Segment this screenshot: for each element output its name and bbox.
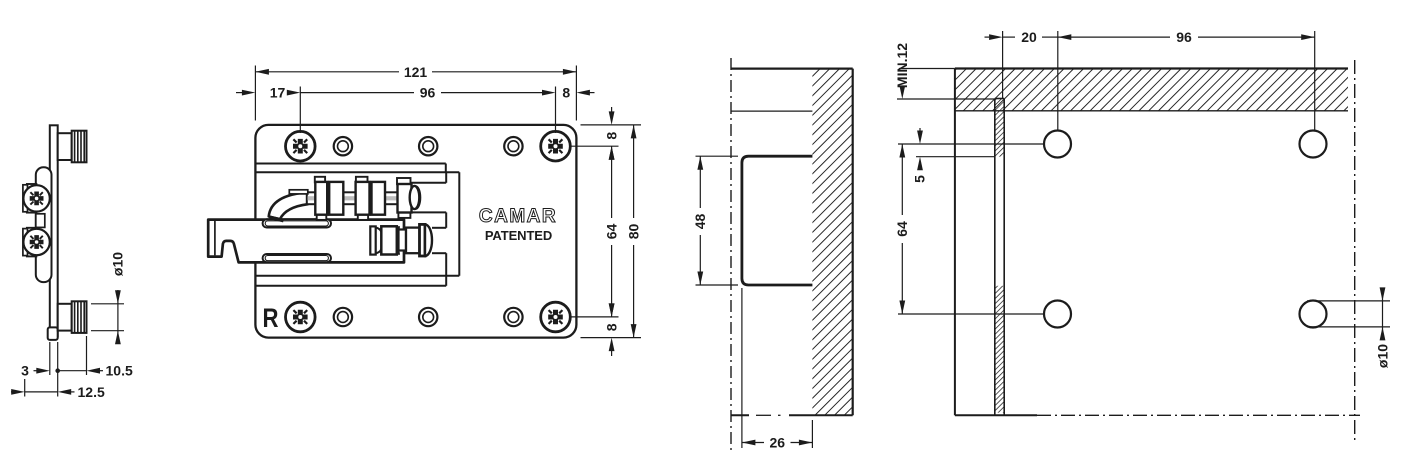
cam housing bar — [36, 167, 52, 282]
extension line screw bottom right side — [571, 316, 619, 318]
side panel groove strip — [995, 99, 1004, 157]
top row screw left — [286, 131, 316, 161]
top dowel threaded end — [72, 131, 87, 163]
dim 8 vertical top: arrows outside — [611, 107, 613, 112]
panel right edge — [852, 69, 854, 416]
dim 80 vertical — [633, 125, 635, 218]
ext line 26 left — [741, 288, 743, 448]
svg-text:ø10: ø10 — [1374, 344, 1390, 368]
hole bottom-left — [1044, 301, 1071, 328]
svg-text:48: 48 — [692, 214, 708, 230]
collar B5 — [398, 184, 412, 213]
dim 10.5 — [58, 370, 87, 372]
ext line plate right — [57, 342, 59, 397]
dim 64 vertical — [611, 146, 613, 218]
svg-text:26: 26 — [770, 434, 786, 450]
bottom centerline dash-dot — [756, 414, 771, 416]
svg-text:8: 8 — [603, 132, 619, 140]
connector between cams — [36, 214, 45, 228]
dia10 dimension — [117, 290, 119, 344]
hole top-left — [1044, 131, 1071, 158]
lower cylinder — [406, 228, 420, 254]
screw head cap — [410, 186, 420, 209]
bottom row hole 1 — [334, 308, 352, 326]
dim 20 ext line right / 96 left — [1057, 31, 1059, 130]
dia10 ext lines — [91, 303, 124, 305]
extension line screw left top — [299, 87, 301, 134]
dim 96 ext line right — [1314, 31, 1316, 130]
strip top ref line — [897, 98, 995, 100]
right centerline dash-dot — [1354, 60, 1356, 440]
lower block — [381, 226, 397, 254]
bottom dowel threaded end — [72, 301, 87, 333]
dimension 96 — [300, 92, 414, 94]
dim 20 — [985, 36, 990, 38]
svg-text:R: R — [263, 303, 279, 333]
svg-text:17: 17 — [270, 85, 286, 101]
bottom cam disc — [23, 229, 49, 255]
upper channel in right wall — [411, 182, 446, 184]
hatched side panel section — [812, 69, 852, 416]
bottom row screw right — [541, 302, 571, 332]
dimension 17 — [236, 92, 244, 94]
svg-text:80: 80 — [625, 224, 641, 240]
top cam side plate — [23, 185, 28, 212]
bracket recess notch — [742, 156, 813, 285]
top cam disc — [23, 185, 49, 211]
lower slot pill — [263, 254, 331, 262]
hook lever plate — [208, 220, 404, 263]
hole bottom-right — [1300, 301, 1327, 328]
svg-text:8: 8 — [603, 323, 619, 331]
elbow lower dark edge — [270, 217, 284, 220]
svg-text:5: 5 — [912, 175, 928, 183]
band step right top — [445, 164, 447, 173]
bottom row screw left — [286, 302, 316, 332]
bottom dowel thread lines — [75, 301, 85, 333]
rod left shelf — [289, 190, 308, 194]
left centerline dash-dot — [730, 58, 732, 452]
screw rod upper — [307, 192, 414, 204]
dim 20 ext line left — [1002, 31, 1004, 98]
sleeve block B4 — [372, 182, 386, 215]
elbow bent tube — [269, 192, 308, 219]
svg-text:12.5: 12.5 — [78, 384, 105, 400]
band right wall — [458, 172, 460, 275]
ext line plate left — [49, 342, 51, 375]
sleeve block B2 — [329, 182, 343, 215]
hole top-right — [1300, 131, 1327, 158]
ext line notch top — [696, 155, 739, 157]
svg-text:20: 20 — [1021, 29, 1037, 45]
ext tick housing left — [24, 379, 26, 397]
dia10 vertical with arrows — [1382, 293, 1384, 336]
slide housing band outer top line — [255, 163, 445, 165]
svg-text:8: 8 — [562, 85, 570, 101]
bottom edge solid part — [955, 414, 1037, 416]
extension line plate top right side — [581, 124, 642, 126]
panel top edge — [731, 67, 853, 69]
band outer bottom line — [255, 285, 446, 287]
sleeve block B1 — [315, 182, 327, 215]
dim 12.5 — [11, 391, 12, 393]
top edge — [955, 67, 1348, 69]
top row hole 1 — [334, 137, 352, 155]
bottom centerline dash-dot — [1037, 414, 1360, 416]
top cam cylinder — [27, 184, 37, 213]
dim 96 (template) — [1058, 36, 1170, 38]
top row hole 3 — [504, 137, 522, 155]
MIN.12 arrow — [899, 86, 905, 100]
svg-text:121: 121 — [404, 64, 428, 80]
dim 48 — [699, 156, 701, 208]
mounting plate outline — [255, 125, 576, 338]
ext line dowel end — [86, 336, 88, 375]
block bottom tabs — [317, 215, 327, 220]
band step right bottom — [445, 276, 447, 286]
svg-text:CAMAR: CAMAR — [479, 206, 557, 227]
svg-text:96: 96 — [1176, 29, 1192, 45]
svg-text:64: 64 — [603, 224, 619, 240]
extension line plate bottom right side — [581, 337, 642, 339]
lower collar — [399, 230, 407, 251]
left edge — [954, 69, 956, 416]
dim 64 vertical — [901, 144, 903, 215]
bottom row hole 2 — [419, 308, 437, 326]
extension line screw right top — [555, 87, 557, 134]
dim 5 arrows outside — [919, 128, 921, 131]
block top tabs — [315, 177, 325, 183]
panel bottom edge segments — [731, 414, 749, 416]
ext line 26 right — [811, 420, 813, 448]
band inner bottom line — [255, 275, 459, 277]
svg-text:10.5: 10.5 — [106, 363, 133, 379]
hole row bottom ref line — [898, 313, 1045, 315]
plate bottom foot — [48, 327, 58, 340]
extension line screw top right side — [571, 145, 619, 147]
lower channel in right wall — [432, 227, 446, 229]
hole row top ref line — [898, 143, 1045, 145]
svg-text:64: 64 — [894, 221, 910, 237]
extension line plate left top — [254, 66, 256, 121]
lower screw left strip — [370, 226, 375, 254]
ext line notch bottom — [696, 284, 739, 286]
top band bottom line — [955, 110, 1348, 112]
top row hole 2 — [419, 137, 437, 155]
lower funnel left — [376, 228, 382, 254]
back plate vertical bar — [50, 125, 58, 336]
upper slot pill — [263, 219, 331, 227]
rod shading — [308, 196, 413, 200]
svg-text:PATENTED: PATENTED — [485, 228, 552, 243]
dia10 tangent line bottom — [1307, 326, 1390, 328]
lower cap ellipse — [425, 224, 432, 256]
bottom cam side plate — [23, 229, 28, 256]
dim 26 — [742, 442, 764, 444]
top dowel thread lines — [75, 131, 85, 163]
lower funnel right — [397, 226, 399, 255]
bottom dowel shank — [58, 304, 72, 331]
svg-text:3: 3 — [21, 363, 29, 379]
sleeve block B3 — [356, 182, 370, 215]
band inner top line — [255, 171, 459, 173]
bottom row hole 3 — [504, 308, 522, 326]
svg-text:ø10: ø10 — [110, 252, 126, 276]
top dowel shank — [58, 133, 72, 160]
hatched top panel band — [955, 69, 1348, 111]
top panel underside line — [731, 110, 812, 112]
groove hatch end ref line — [916, 156, 995, 158]
top edge extended left — [899, 68, 955, 70]
lower dark ring — [420, 224, 426, 256]
bottom cam cylinder — [27, 228, 37, 257]
svg-text:MIN.12: MIN.12 — [894, 43, 910, 88]
top row screw right — [541, 131, 571, 161]
dia10 tangent line top — [1307, 300, 1390, 302]
dim 8 vertical bottom — [609, 303, 615, 317]
extension line plate right top — [575, 66, 577, 121]
hook inner edge line — [214, 221, 216, 256]
dimension 121 line — [255, 71, 399, 73]
svg-text:96: 96 — [420, 85, 436, 101]
